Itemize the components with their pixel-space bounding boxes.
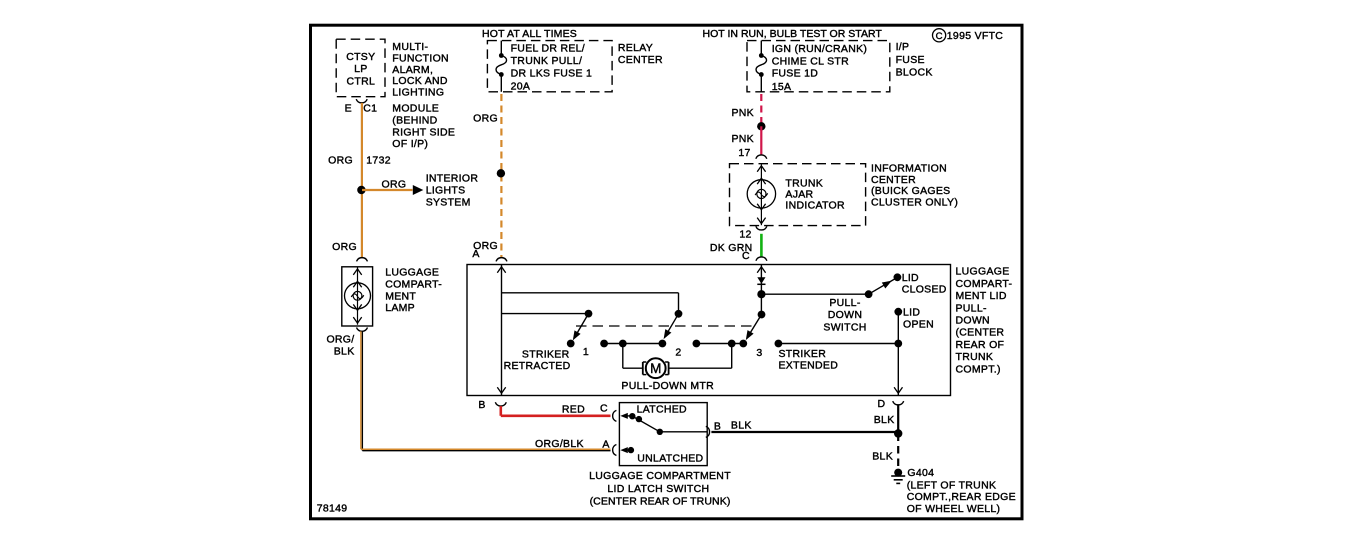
svg-text:REAR OF: REAR OF [956,339,1005,351]
svg-text:(BEHIND: (BEHIND [392,115,437,127]
svg-text:OF I/P): OF I/P) [392,138,428,150]
svg-text:OF WHEEL WELL): OF WHEEL WELL) [907,503,1001,515]
svg-text:LID: LID [902,272,919,284]
svg-text:I/P: I/P [896,41,910,53]
svg-text:PULL-DOWN MTR: PULL-DOWN MTR [621,380,714,392]
svg-text:(BUICK GAGES: (BUICK GAGES [871,185,950,197]
svg-text:CLUSTER ONLY): CLUSTER ONLY) [871,197,958,209]
svg-text:20A: 20A [511,81,531,93]
svg-text:LIGHTING: LIGHTING [392,87,444,99]
svg-text:AJAR: AJAR [785,188,813,200]
svg-text:RELAY: RELAY [618,42,653,54]
svg-text:17: 17 [738,147,750,159]
svg-text:LUGGAGE COMPARTMENT: LUGGAGE COMPARTMENT [589,470,731,482]
svg-text:IGN (RUN/CRANK): IGN (RUN/CRANK) [772,43,868,55]
svg-text:CLOSED: CLOSED [902,284,947,296]
svg-text:COMPT.): COMPT.) [956,363,1001,375]
svg-text:MENT: MENT [385,290,416,302]
svg-text:LUGGAGE: LUGGAGE [956,266,1010,278]
svg-text:CHIME CL STR: CHIME CL STR [772,56,849,68]
svg-text:M: M [650,361,661,376]
svg-text:MODULE: MODULE [392,103,439,115]
svg-text:FUSE 1D: FUSE 1D [772,68,819,80]
svg-text:3: 3 [756,347,762,359]
svg-text:BLOCK: BLOCK [896,67,933,79]
svg-text:ORG: ORG [382,179,407,191]
svg-text:COMPT.,REAR EDGE: COMPT.,REAR EDGE [907,491,1016,503]
svg-text:INFORMATION: INFORMATION [871,163,947,175]
svg-text:PNK: PNK [732,107,755,119]
svg-text:ORG: ORG [332,241,357,253]
svg-text:FUSE: FUSE [896,54,925,66]
svg-text:C: C [742,250,750,262]
svg-text:A: A [472,248,479,260]
svg-text:ORG: ORG [328,155,353,167]
svg-text:BLK: BLK [334,346,355,358]
svg-text:LAMP: LAMP [385,302,415,314]
svg-text:PNK: PNK [732,133,755,145]
svg-text:12: 12 [739,229,751,241]
svg-text:INTERIOR: INTERIOR [426,173,479,185]
svg-text:2: 2 [675,347,681,359]
svg-text:STRIKER: STRIKER [779,348,827,360]
svg-text:LIGHTS: LIGHTS [426,185,466,197]
svg-text:ALARM,: ALARM, [392,64,433,76]
svg-text:PULL-: PULL- [829,297,860,309]
svg-text:BLK: BLK [872,450,893,462]
svg-text:A: A [602,438,609,450]
svg-text:LUGGAGE: LUGGAGE [385,267,439,279]
svg-text:RETRACTED: RETRACTED [504,360,571,372]
svg-text:HOT AT ALL TIMES: HOT AT ALL TIMES [482,28,577,40]
svg-text:LP: LP [354,63,367,75]
svg-text:1: 1 [583,346,589,358]
svg-text:OPEN: OPEN [903,319,934,331]
svg-text:COMPART-: COMPART- [385,279,442,291]
svg-text:ORG: ORG [473,113,498,125]
svg-text:(CENTER: (CENTER [956,327,1005,339]
svg-text:C1: C1 [363,102,377,114]
svg-text:C: C [936,31,943,42]
svg-text:MULTI-: MULTI- [392,41,428,53]
svg-text:CTRL: CTRL [346,75,375,87]
svg-text:DOWN: DOWN [828,309,862,321]
svg-text:E: E [345,102,352,114]
svg-text:COMPART-: COMPART- [956,278,1013,290]
svg-text:TRUNK PULL/: TRUNK PULL/ [511,55,583,67]
svg-text:LATCHED: LATCHED [637,404,687,416]
svg-text:MENT LID: MENT LID [956,290,1007,302]
svg-text:LID LATCH SWITCH: LID LATCH SWITCH [607,483,709,495]
svg-text:(LEFT OF TRUNK: (LEFT OF TRUNK [907,479,997,491]
svg-text:CTSY: CTSY [346,51,375,63]
svg-text:EXTENDED: EXTENDED [779,360,839,372]
svg-text:(CENTER REAR OF TRUNK): (CENTER REAR OF TRUNK) [590,496,731,508]
svg-text:D: D [878,398,886,410]
svg-text:LOCK AND: LOCK AND [392,75,448,87]
svg-text:PULL-: PULL- [956,302,987,314]
svg-text:ORG/: ORG/ [326,334,354,346]
svg-text:SYSTEM: SYSTEM [426,197,471,209]
svg-text:RED: RED [562,404,585,416]
svg-text:RIGHT SIDE: RIGHT SIDE [392,126,455,138]
svg-text:UNLATCHED: UNLATCHED [637,453,703,465]
svg-text:CENTER: CENTER [871,174,916,186]
svg-text:HOT IN RUN, BULB TEST OR START: HOT IN RUN, BULB TEST OR START [703,28,883,40]
svg-text:FUEL DR REL/: FUEL DR REL/ [511,43,585,55]
svg-text:78149: 78149 [317,503,348,515]
svg-text:DOWN: DOWN [956,315,990,327]
svg-text:INDICATOR: INDICATOR [785,200,845,212]
svg-text:BLK: BLK [731,420,752,432]
svg-text:CENTER: CENTER [618,54,663,66]
svg-text:FUNCTION: FUNCTION [392,53,449,65]
svg-text:BLK: BLK [874,414,895,426]
svg-text:B: B [478,399,485,411]
svg-text:1995 VFTC: 1995 VFTC [947,30,1004,42]
svg-text:TRUNK: TRUNK [956,351,994,363]
svg-text:15A: 15A [772,81,792,93]
svg-text:ORG/BLK: ORG/BLK [535,438,584,450]
svg-text:SWITCH: SWITCH [823,322,866,334]
svg-text:1732: 1732 [366,155,391,167]
svg-text:LID: LID [903,306,920,318]
svg-text:G404: G404 [907,467,934,479]
svg-text:DR LKS FUSE 1: DR LKS FUSE 1 [511,68,593,80]
svg-text:C: C [600,402,608,414]
svg-text:STRIKER: STRIKER [522,348,570,360]
